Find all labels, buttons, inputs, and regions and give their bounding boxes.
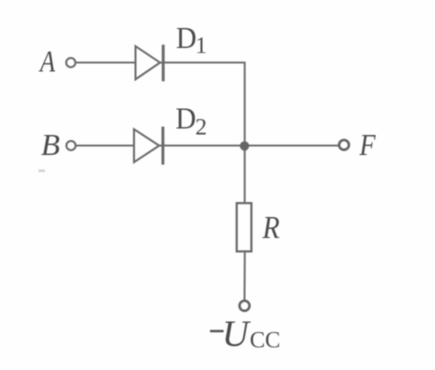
svg-text:F: F bbox=[359, 127, 377, 162]
svg-text:B: B bbox=[41, 127, 60, 162]
svg-text:1: 1 bbox=[195, 33, 207, 59]
svg-text:CC: CC bbox=[250, 328, 281, 353]
svg-text:D: D bbox=[176, 20, 197, 55]
svg-text:A: A bbox=[38, 44, 56, 79]
svg-text:R: R bbox=[262, 209, 280, 245]
svg-text:U: U bbox=[222, 314, 251, 355]
svg-text:2: 2 bbox=[195, 115, 207, 141]
svg-text:D: D bbox=[176, 101, 197, 136]
